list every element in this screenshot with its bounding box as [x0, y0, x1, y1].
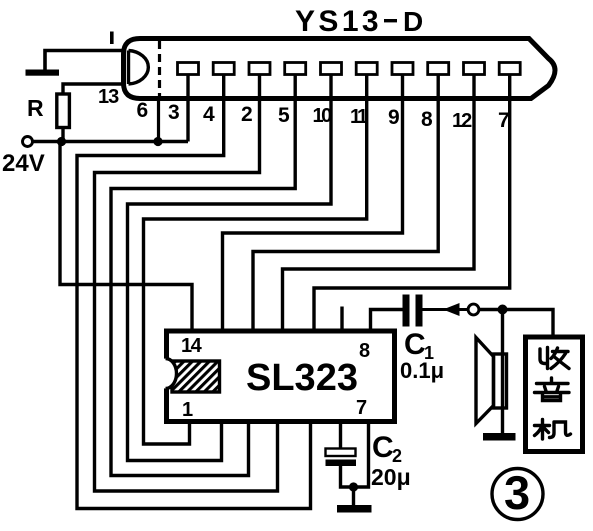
svg-text:3: 3 — [504, 466, 530, 519]
wire tube pin 3 to +24V rail — [186, 75, 189, 142]
wire tube pin 7 to IC top pin — [314, 75, 510, 334]
svg-text:4: 4 — [203, 103, 215, 126]
wire tube pin 9 to IC top pin — [223, 75, 403, 334]
wire tube pin 5 to IC pin (via left bus) — [111, 75, 295, 476]
wire pin 6 to +24V rail — [157, 100, 160, 142]
junction dot speaker node — [498, 305, 508, 315]
junction dot grid / 24V — [153, 137, 162, 146]
anode segment pin 2 — [249, 63, 270, 75]
wire IC pin 7 to ground node — [354, 422, 369, 487]
ground (speaker) — [483, 433, 516, 441]
wire C2 to ground node — [341, 466, 354, 487]
svg-text:24V: 24V — [2, 150, 45, 177]
wire tube pin 13 to resistor R — [63, 84, 126, 94]
svg-text:SL323: SL323 — [246, 357, 358, 399]
wire tube pin 2 to IC pin (via left bus) — [95, 75, 278, 492]
output terminal circle — [468, 304, 479, 315]
svg-text:9: 9 — [388, 106, 400, 129]
svg-text:D: D — [403, 6, 423, 37]
wire R to +24V rail — [61, 128, 64, 142]
character yin — [535, 378, 570, 401]
IC top NC stub — [340, 307, 343, 334]
grid pin 6 dashed line — [158, 41, 161, 100]
svg-text:1: 1 — [182, 399, 193, 421]
svg-text:20μ: 20μ — [371, 464, 411, 490]
svg-text:14: 14 — [181, 335, 203, 357]
IC U1 SL323 body — [167, 331, 395, 422]
svg-text:5: 5 — [278, 104, 290, 127]
svg-text:C: C — [372, 431, 394, 464]
svg-text:C: C — [404, 328, 426, 361]
anode segment pin 11 — [356, 63, 377, 75]
anode segment pin 5 — [285, 63, 306, 75]
anode segment pin 7 — [499, 63, 520, 75]
radio box (shou-yin-ji) — [526, 337, 583, 452]
+24V terminal — [23, 137, 33, 147]
svg-text:YS13: YS13 — [295, 5, 382, 38]
anode segment pin 4 — [213, 63, 234, 75]
ground (C2) — [337, 505, 372, 513]
wire tube pin 8 to IC top pin — [253, 75, 438, 334]
character shou — [540, 348, 569, 369]
anode segment pin 12 — [464, 63, 485, 75]
tube YS13-D envelope — [124, 39, 556, 99]
ground (filament) — [26, 70, 60, 76]
speaker cone — [476, 338, 494, 424]
svg-text:8: 8 — [421, 108, 433, 131]
svg-text:R: R — [27, 95, 44, 121]
svg-text:13: 13 — [98, 86, 119, 108]
wire IC pin 8 to C1 — [371, 310, 403, 334]
label YS13-D — [295, 5, 423, 38]
capacitor C2 electrolytic — [326, 449, 356, 457]
junction dot C2/pin7 — [349, 482, 358, 491]
svg-text:8: 8 — [359, 340, 370, 362]
character ji — [535, 420, 571, 440]
svg-text:2: 2 — [241, 103, 253, 126]
wire terminal to radio — [479, 310, 553, 338]
svg-text:7: 7 — [498, 109, 510, 132]
wire C1 to output terminal — [423, 308, 469, 311]
ground stem C2 — [352, 487, 355, 505]
svg-text:0.1μ: 0.1μ — [400, 358, 444, 383]
svg-text:12: 12 — [452, 110, 472, 132]
junction dot R / 24V — [57, 137, 66, 146]
capacitor C1 plates — [403, 295, 410, 327]
pin 1 label — [110, 32, 114, 45]
svg-text:7: 7 — [356, 397, 367, 419]
anode segment pin 10 — [321, 63, 342, 75]
svg-text:3: 3 — [168, 101, 180, 124]
+24V rail wire — [33, 140, 189, 143]
figure number 3 — [492, 469, 543, 520]
wire tube pin 10 to IC pin (via left bus) — [128, 75, 332, 461]
wire tube pin 11 to IC pin 1 (via left bus) — [144, 75, 367, 445]
wire IC to C2 — [339, 422, 342, 449]
anode segment pin 8 — [428, 63, 449, 75]
svg-text:10: 10 — [313, 105, 333, 127]
wire tube pin 12 to IC top pin — [283, 75, 475, 334]
svg-text:6: 6 — [137, 99, 149, 122]
wire +24V to IC pin 14 — [60, 142, 192, 334]
speaker coil — [494, 354, 507, 408]
anode segment pin 3 — [178, 63, 199, 75]
wire node to speaker — [501, 310, 504, 434]
resistor R — [57, 94, 70, 128]
IC notch hatch block — [155, 359, 220, 393]
filament cathode (pins 1,13) — [129, 51, 149, 85]
wire tube pin 1 to ground — [45, 51, 126, 70]
arrowhead signal direction — [443, 303, 460, 316]
wire tube pin 4 to IC pin (via left bus) — [77, 75, 311, 509]
svg-text:2: 2 — [392, 446, 402, 466]
anode segment pin 9 — [392, 63, 413, 75]
